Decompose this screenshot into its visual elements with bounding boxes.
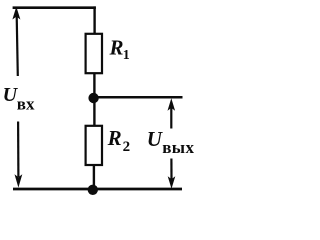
svg-text:вх: вх (17, 94, 35, 113)
wire: R2 bottom lead to node B (93, 164, 95, 190)
wire: U_vx arrow lower shaft (17, 122, 19, 178)
wire: U_vyx arrow upper shaft (170, 107, 172, 129)
arrow: U_vyx up arrowhead (right) (168, 98, 176, 111)
svg-text:1: 1 (123, 48, 130, 63)
svg-text:R: R (107, 126, 122, 150)
resistor R2 (86, 126, 102, 165)
svg-text:вых: вых (162, 138, 194, 157)
wire: R1 bottom lead to node A (93, 73, 95, 98)
arrow: U_vx up arrowhead (top left) (12, 7, 20, 20)
wire: U_vx arrow upper shaft (17, 16, 18, 76)
node A (junction dot between R1 and R2) (88, 93, 98, 103)
arrow: U_vx down arrowhead (bottom left) (15, 174, 23, 187)
svg-text:R: R (109, 36, 124, 60)
node B (bottom junction dot) (88, 185, 98, 195)
resistor R1 (86, 34, 102, 73)
wire: node A down to R2 (93, 98, 95, 127)
arrow: U_vyx down arrowhead (right) (168, 176, 176, 189)
svg-text:2: 2 (123, 139, 131, 155)
wire: middle horizontal (output tap) (94, 96, 183, 99)
wire: top horizontal (input top rail) (13, 6, 96, 9)
wire: bottom horizontal (common rail) (13, 188, 182, 191)
wire: U_vyx arrow lower shaft (170, 159, 172, 180)
wire: top-right corner down to R1 (93, 6, 95, 34)
